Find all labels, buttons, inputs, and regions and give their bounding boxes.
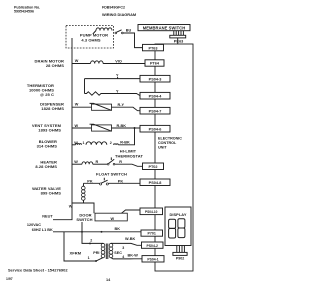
- svg-text:PS04-8: PS04-8: [149, 181, 162, 185]
- secondary winding: [109, 243, 113, 257]
- svg-text:FLOAT SWITCH: FLOAT SWITCH: [96, 171, 127, 176]
- svg-text:1: 1: [88, 256, 90, 260]
- hi-limit thermostat switch: [107, 157, 115, 165]
- svg-text:XFRM: XFRM: [70, 251, 82, 256]
- pump centrifugal switch: [115, 30, 123, 34]
- drain motor M2: [35, 59, 65, 69]
- heater label: [35, 159, 57, 168]
- connector PS04-8: [140, 179, 170, 186]
- svg-text:NEUT: NEUT: [42, 215, 53, 219]
- primary winding: [101, 243, 105, 257]
- connector PT02: [143, 163, 164, 170]
- wire W blower: [72, 141, 78, 145]
- wire W drain: [72, 59, 91, 64]
- dispenser resistor element: [90, 103, 112, 110]
- wire W water valve to bus and door switch: [69, 203, 94, 213]
- wire W vent: [72, 124, 92, 128]
- svg-text:28 OHMS: 28 OHMS: [46, 63, 64, 68]
- neutral line: [53, 219, 73, 221]
- connector PS04-4: [140, 92, 170, 99]
- junction blower-vent: [134, 127, 136, 129]
- svg-text:W: W: [111, 217, 115, 221]
- header publication text: [14, 6, 40, 14]
- neutral bus wire: [71, 38, 73, 220]
- svg-text:R-BK: R-BK: [120, 140, 130, 144]
- svg-text:PS04-7: PS04-7: [149, 109, 162, 113]
- svg-text:60HZ: 60HZ: [32, 228, 42, 232]
- thermistor loop wires: [85, 73, 141, 93]
- svg-text:W: W: [75, 103, 79, 107]
- float switch S1: [100, 178, 109, 185]
- svg-text:UNIT: UNIT: [158, 145, 167, 149]
- svg-text:BK: BK: [115, 227, 121, 231]
- wire door switch to PS04-10: [122, 210, 141, 213]
- svg-text:899 OHMS: 899 OHMS: [41, 191, 62, 196]
- wire VIO to PT64: [103, 59, 145, 63]
- svg-text:THERMOSTAT: THERMOSTAT: [115, 153, 143, 158]
- hi-limit thermostat label: [115, 149, 143, 159]
- display module: [165, 207, 191, 246]
- water valve solenoid coil: [82, 183, 86, 203]
- seven-segment digit 2: [178, 219, 185, 238]
- wire PK to PS04-8: [108, 179, 140, 183]
- svg-text:1: 1: [83, 141, 85, 145]
- svg-text:120VAC: 120VAC: [27, 223, 41, 227]
- svg-text:W-BK: W-BK: [125, 237, 136, 241]
- wire R to PT02: [115, 160, 143, 166]
- pump motor M1: [66, 26, 114, 49]
- svg-text:BK-W: BK-W: [128, 253, 139, 257]
- svg-text:8.28 OHMS: 8.28 OHMS: [35, 164, 57, 169]
- svg-text:@ 25 C: @ 25 C: [40, 92, 54, 97]
- wire R-BK blower to junction: [118, 128, 134, 145]
- svg-text:FDB949GFC2: FDB949GFC2: [102, 5, 125, 9]
- wire W heater: [72, 160, 82, 164]
- water valve label: [32, 186, 61, 196]
- svg-text:W: W: [75, 124, 79, 128]
- heater element coil: [82, 160, 107, 164]
- blower motor coil: [76, 141, 119, 145]
- svg-text:CONTROL: CONTROL: [158, 141, 177, 145]
- connector P701: [141, 230, 163, 236]
- wire L1 to xfrm pin 1: [64, 232, 103, 262]
- svg-text:2: 2: [90, 239, 92, 243]
- connector PK63: [170, 31, 186, 44]
- svg-text:R: R: [96, 160, 99, 164]
- svg-text:WIRING DIAGRAM: WIRING DIAGRAM: [102, 12, 136, 17]
- svg-text:PS04-3: PS04-3: [149, 77, 162, 81]
- drain motor coil: [91, 61, 104, 64]
- transformer T1: [70, 243, 123, 259]
- svg-text:PS04-2: PS04-2: [147, 244, 158, 248]
- connector PT64: [145, 60, 164, 66]
- svg-text:PRI: PRI: [93, 251, 99, 255]
- svg-text:PK: PK: [87, 179, 93, 183]
- connector PS04-7: [140, 107, 170, 114]
- svg-text:1/97: 1/97: [6, 277, 13, 281]
- svg-text:Service Data Sheet - 154276902: Service Data Sheet - 154276902: [8, 267, 68, 272]
- line L1 to P701: [53, 231, 141, 233]
- svg-text:PT64: PT64: [150, 62, 160, 66]
- svg-text:2: 2: [110, 141, 112, 145]
- svg-text:PS04-1: PS04-1: [147, 258, 158, 262]
- junction L1 xfrm: [101, 231, 103, 233]
- svg-text:P902: P902: [176, 257, 184, 261]
- svg-text:PT63: PT63: [148, 46, 157, 50]
- dispenser solenoid label: [40, 102, 64, 111]
- wire PK float: [84, 179, 100, 183]
- svg-text:PS04-4: PS04-4: [149, 94, 163, 98]
- svg-text:BU: BU: [126, 29, 132, 33]
- thermistor resistor element: [85, 90, 141, 96]
- svg-text:PS04-6: PS04-6: [149, 127, 162, 131]
- junction L1 door: [81, 231, 83, 233]
- svg-text:SEC: SEC: [114, 251, 122, 255]
- connector PS04-6: [140, 125, 170, 132]
- wire R-Y to PS04-7: [112, 103, 141, 111]
- svg-text:ELECTRONIC: ELECTRONIC: [158, 137, 182, 141]
- core: [106, 244, 108, 260]
- svg-text:PT02: PT02: [148, 165, 157, 169]
- wire BU to PT63: [123, 29, 142, 48]
- svg-text:PK63: PK63: [174, 40, 184, 44]
- wire BK-W sec pin 4 to PS04-1: [111, 253, 142, 259]
- svg-text:314 OHMS: 314 OHMS: [37, 143, 58, 148]
- connector PT63: [143, 44, 164, 50]
- svg-text:L1 BK: L1 BK: [42, 228, 53, 232]
- svg-text:SWITCH: SWITCH: [76, 217, 92, 222]
- wire L1 to xfrm pin 2: [82, 232, 103, 245]
- wire R-BK to PS04-6: [112, 124, 141, 128]
- svg-text:DISPLAY: DISPLAY: [169, 212, 186, 217]
- svg-text:W: W: [69, 204, 73, 208]
- svg-text:R-Y: R-Y: [118, 103, 125, 107]
- svg-text:PK: PK: [118, 179, 124, 183]
- svg-text:PS04-10: PS04-10: [145, 210, 158, 214]
- svg-text:4.3 OHMS: 4.3 OHMS: [81, 38, 101, 43]
- connector PS04-2: [142, 242, 164, 248]
- connector PS04-3: [140, 75, 170, 82]
- header model text: [102, 5, 136, 17]
- electronic control unit U1: [155, 44, 193, 271]
- svg-text:MEMBRANE SWITCH: MEMBRANE SWITCH: [143, 25, 186, 30]
- svg-text:1828 OHMS: 1828 OHMS: [41, 106, 64, 111]
- wire W-BK sec pin 3 to PS04-2: [111, 237, 142, 250]
- thermistor RT1 label: [27, 83, 54, 97]
- connector PS04-1: [142, 256, 164, 262]
- svg-text:5995434596: 5995434596: [14, 10, 34, 14]
- svg-text:3: 3: [122, 246, 124, 250]
- seven-segment digit 1: [169, 219, 176, 238]
- svg-text:W: W: [74, 160, 78, 164]
- vent resistor element: [90, 124, 112, 131]
- membrane switch: [138, 25, 190, 31]
- connector PS04-10: [140, 208, 163, 215]
- connector P902: [173, 246, 187, 261]
- svg-text:1893 OHMS: 1893 OHMS: [38, 127, 61, 132]
- vent system label: [32, 123, 62, 132]
- blower label: [37, 139, 58, 148]
- label 120VAC 60HZ: [27, 223, 42, 232]
- svg-text:R: R: [119, 160, 122, 164]
- wire door to L1: [81, 222, 83, 232]
- door switch box: [95, 213, 127, 221]
- svg-text:VIO: VIO: [115, 59, 122, 63]
- wire W dispenser: [72, 103, 92, 108]
- svg-text:P701: P701: [147, 232, 155, 236]
- svg-text:W: W: [75, 59, 79, 63]
- door switch label: [76, 212, 92, 222]
